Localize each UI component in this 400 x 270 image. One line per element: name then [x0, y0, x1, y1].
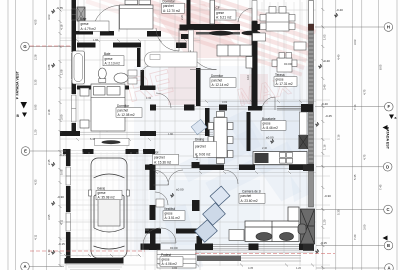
dining table: [208, 112, 233, 164]
axis lines: [29, 27, 385, 268]
svg-text:-0.30: -0.30: [324, 194, 331, 198]
svg-text:-0.15: -0.15: [320, 241, 327, 245]
bed 1 dormitor 12.70: [120, 0, 154, 29]
svg-text:4.40: 4.40: [337, 54, 341, 60]
baie2 fixtures: [72, 51, 85, 84]
svg-text:CF: CF: [216, 6, 220, 10]
svg-text:2.40: 2.40: [262, 146, 268, 150]
svg-text:1.80: 1.80: [93, 38, 99, 42]
wall W12 x206.5: [205, 108, 210, 136]
garage north wall: [63, 149, 69, 154]
svg-text:2.45: 2.45: [47, 159, 51, 165]
small table camera: [229, 230, 244, 241]
svg-text:5.16: 5.16: [337, 134, 341, 140]
svg-text:grese: grese: [81, 22, 89, 26]
svg-text:A: A: [23, 264, 26, 269]
left margin dimension lines: [8, 0, 60, 270]
corridor sliding door band: [196, 32, 240, 35]
svg-text:A: 4.06 m2: A: 4.06 m2: [162, 262, 178, 266]
label baie1: [79, 17, 109, 31]
door arcs: [93, 6, 275, 246]
svg-text:4.55: 4.55: [34, 19, 38, 25]
svg-text:A: 4.79 m2: A: 4.79 m2: [81, 27, 97, 31]
wall W5b x196 dorm12.14 west: [196, 68, 201, 106]
svg-text:3.95: 3.95: [47, 214, 51, 220]
svg-text:Baie: Baie: [80, 17, 87, 21]
svg-text:D: D: [386, 164, 389, 169]
svg-text:2.20: 2.20: [180, 14, 184, 20]
wall W8 y106: [150, 105, 156, 111]
facade labels: [16, 70, 390, 149]
svg-text:grese: grese: [98, 191, 106, 195]
vestibul cabinet: [156, 199, 164, 207]
svg-text:B: B: [387, 243, 390, 248]
svg-text:0.88: 0.88: [47, 64, 51, 70]
svg-text:Podest: Podest: [161, 253, 171, 257]
svg-text:1.20: 1.20: [34, 129, 38, 135]
svg-text:-0.45: -0.45: [59, 153, 66, 157]
svg-text:grese: grese: [216, 11, 224, 15]
svg-text:FATADA EST: FATADA EST: [386, 127, 390, 150]
svg-text:Bucatarie: Bucatarie: [262, 117, 276, 121]
svg-text:Dining: Dining: [195, 138, 204, 142]
terasa decking grid: [262, 2, 302, 100]
svg-text:A: 12.08 m2: A: 12.08 m2: [118, 113, 135, 117]
wardrobe dorm 12.14: [217, 45, 253, 68]
svg-text:A: 6.21 m2: A: 6.21 m2: [216, 16, 232, 20]
garage left wall: [66, 149, 71, 166]
svg-text:Terasa: Terasa: [275, 73, 285, 77]
svg-text:A: 12.70 m2: A: 12.70 m2: [163, 9, 180, 13]
svg-text:4.18: 4.18: [60, 24, 64, 30]
svg-text:parchet: parchet: [163, 4, 174, 8]
svg-text:A: 12.14 m2: A: 12.14 m2: [212, 83, 229, 87]
svg-text:grese: grese: [162, 258, 170, 262]
svg-text:4.35: 4.35: [248, 266, 254, 270]
label dormitor 12.08: [116, 104, 142, 117]
label terasa: [274, 73, 297, 86]
right margin dimension lines: [323, 0, 397, 270]
baie1 shower: [77, 7, 85, 21]
svg-text:1.43: 1.43: [146, 96, 152, 100]
pocket door slot corridor: [189, 30, 194, 52]
garage south wall: [65, 258, 124, 264]
svg-text:4.33: 4.33: [34, 179, 38, 185]
stadium shape hallway top: [145, 52, 198, 67]
svg-text:Vestibul: Vestibul: [164, 207, 175, 211]
svg-text:±0.00: ±0.00: [284, 62, 292, 66]
svg-text:A: 2.13 m2: A: 2.13 m2: [105, 61, 121, 65]
vestibul/podest wall y228.5: [145, 229, 161, 234]
tick marks left dim line: [59, 9, 325, 270]
label bucatarie: [261, 117, 286, 130]
svg-text:1.16: 1.16: [323, 144, 327, 150]
garage door band: [95, 139, 130, 146]
bottom wall camera de zi: [195, 244, 213, 251]
kitchen counter: [253, 112, 308, 165]
fireplace: [301, 209, 315, 244]
wall W7 x251.5 terasa west: [252, 21, 258, 110]
north M markers: [50, 8, 339, 255]
svg-text:Camera de zi: Camera de zi: [242, 189, 261, 193]
svg-text:0.63: 0.63: [60, 169, 64, 175]
wall W10 y164.5: [145, 165, 154, 171]
svg-text:grese: grese: [276, 78, 284, 82]
sofa camera de zi: [245, 207, 306, 242]
extra ticks and bottom dims: [59, 8, 325, 267]
svg-text:F: F: [388, 104, 391, 109]
svg-text:Dormitor: Dormitor: [211, 74, 224, 78]
svg-text:5.40: 5.40: [90, 137, 96, 141]
svg-text:A: 35.08 m2: A: 35.08 m2: [98, 196, 115, 200]
driveway below garage: [60, 254, 141, 270]
garage floor tile grid: [71, 152, 149, 257]
svg-text:3.03: 3.03: [222, 100, 228, 104]
margin dimension numbers rotated: [34, 14, 383, 255]
label dormitor 12.14: [210, 74, 236, 87]
svg-text:7.16: 7.16: [353, 104, 357, 110]
svg-text:C: C: [386, 207, 389, 212]
svg-text:A: 3.51 m2: A: 3.51 m2: [165, 216, 181, 220]
svg-text:grese: grese: [105, 57, 113, 61]
svg-text:3.18: 3.18: [47, 109, 51, 115]
svg-text:4.11: 4.11: [60, 219, 64, 225]
svg-text:1.03: 1.03: [323, 34, 327, 40]
svg-text:A: 8.46 m2: A: 8.46 m2: [263, 126, 279, 130]
svg-text:5.35: 5.35: [353, 174, 357, 180]
label camera de zi: [239, 189, 265, 203]
svg-text:A: 15.36 m2: A: 15.36 m2: [154, 160, 171, 164]
svg-text:5.35: 5.35: [337, 209, 341, 215]
svg-text:-0.30: -0.30: [57, 195, 64, 199]
svg-text:4.03: 4.03: [47, 14, 51, 20]
svg-text:4.75: 4.75: [363, 154, 367, 160]
wall W2 y31 baie1 south: [72, 31, 94, 35]
svg-text:1.20: 1.20: [296, 266, 302, 270]
room labels: [79, 0, 297, 266]
podest steps: [157, 250, 196, 268]
svg-text:1.20: 1.20: [323, 219, 327, 225]
svg-text:A: A: [387, 266, 390, 270]
wall W3b y85.5 dorm north: [77, 86, 93, 90]
label hol: [153, 151, 179, 165]
svg-text:3.03: 3.03: [353, 39, 357, 45]
right exterior wall textured: [301, 1, 315, 252]
grid bubbles right: [383, 23, 393, 270]
svg-text:7.20: 7.20: [353, 234, 357, 240]
bottom wall outer face lines: [195, 251, 314, 252]
wall W9 y131: [60, 131, 80, 136]
svg-text:1.80: 1.80: [168, 132, 174, 136]
svg-text:G: G: [23, 44, 26, 49]
watermark RE/MAX red striped band top: [84, 0, 316, 112]
svg-text:Dormitor: Dormitor: [117, 104, 130, 108]
svg-text:A: 17.31 m2: A: 17.31 m2: [276, 82, 293, 86]
walls: [60, 0, 314, 264]
wall W1 y22.5 corridor/CF: [187, 24, 240, 30]
wall W5 x185.5: [187, 0, 191, 30]
svg-text:parchet: parchet: [118, 109, 129, 113]
small dimension numbers inside plan: [90, 14, 268, 160]
svg-text:parchet: parchet: [212, 79, 223, 83]
steps band below camera: [197, 256, 241, 262]
svg-text:3.95: 3.95: [172, 266, 178, 270]
svg-text:3.40: 3.40: [323, 84, 327, 90]
label dormitor 12.70: [162, 0, 185, 13]
label CF: [215, 6, 237, 20]
svg-text:±0.00: ±0.00: [176, 188, 184, 192]
svg-text:3.00: 3.00: [363, 224, 367, 230]
svg-text:-0.40: -0.40: [321, 102, 328, 106]
vestibul east wall: [192, 200, 200, 211]
label garaj: [96, 187, 122, 200]
svg-text:Garaj: Garaj: [97, 187, 105, 191]
red dashed section lines: [30, 46, 335, 254]
svg-text:Dormitor: Dormitor: [163, 0, 176, 3]
svg-text:-0.45: -0.45: [325, 114, 332, 118]
terrace furniture: [253, 7, 307, 73]
svg-text:-0.40: -0.40: [323, 59, 330, 63]
svg-text:5.35: 5.35: [34, 79, 38, 85]
svg-text:-0.40: -0.40: [336, 8, 343, 12]
svg-text:1.85: 1.85: [195, 154, 199, 160]
svg-text:2.28: 2.28: [34, 54, 38, 60]
interior chain tick marks: [76, 39, 313, 174]
car in garage: [89, 158, 130, 258]
wall W11 garage right: [150, 164, 156, 190]
svg-text:±0.00: ±0.00: [170, 246, 178, 250]
svg-text:0.95: 0.95: [34, 104, 38, 110]
grid bubbles left: [21, 42, 30, 270]
svg-text:grese: grese: [263, 122, 271, 126]
exterior left wall: [72, 0, 77, 52]
label baie2: [103, 52, 124, 66]
wall face thin double lines: [60, 106, 313, 168]
section marker triangles: [21, 102, 395, 241]
svg-text:Baie: Baie: [104, 52, 111, 56]
svg-text:parchet: parchet: [195, 145, 206, 149]
armchairs rotated: [191, 119, 230, 242]
vestibul south wall: [141, 244, 161, 251]
label dining: [194, 138, 217, 158]
svg-text:4.10: 4.10: [246, 74, 250, 80]
wall W4 x137: [137, 48, 141, 67]
svg-text:E: E: [24, 149, 27, 154]
svg-text:A: 23.60 m2: A: 23.60 m2: [241, 199, 258, 203]
level annotations: [56, 6, 343, 250]
wall W13 x252 dining/bucatarie: [247, 112, 251, 151]
svg-text:Hol: Hol: [154, 151, 159, 155]
svg-text:-0.15: -0.15: [58, 242, 65, 246]
svg-text:4.75: 4.75: [363, 89, 367, 95]
svg-text:4.11: 4.11: [34, 234, 38, 240]
thin construction lines inside plan: [60, 0, 330, 270]
windows in left wall: [66, 9, 76, 231]
svg-text:a: a: [395, 116, 397, 120]
svg-text:8.05: 8.05: [379, 64, 383, 70]
CF west shaft wall: [210, 0, 215, 24]
svg-text:parchet: parchet: [241, 194, 252, 198]
svg-text:parchet: parchet: [154, 155, 165, 159]
svg-text:H: H: [387, 25, 390, 30]
interior dimension chain lines: [60, 0, 316, 270]
watermark blue middle: [118, 66, 341, 270]
svg-text:3.00: 3.00: [60, 114, 64, 120]
svg-text:1.10: 1.10: [47, 249, 51, 255]
bed 2 dormitor 12.08: [80, 84, 125, 131]
svg-text:▼ FATADA VEST: ▼ FATADA VEST: [16, 70, 20, 100]
svg-text:7.45: 7.45: [379, 184, 383, 190]
label vestibul: [163, 207, 185, 220]
wall W3 y42.5: [77, 43, 96, 48]
windows bottom wall: [213, 107, 301, 249]
svg-text:1.08: 1.08: [60, 69, 64, 75]
svg-text:grese: grese: [165, 212, 173, 216]
label podest: [160, 253, 183, 266]
